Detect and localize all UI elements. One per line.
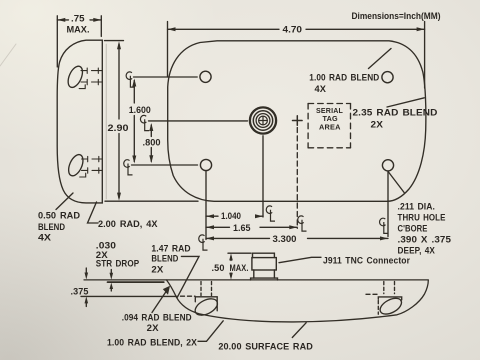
side view top hole section marks [79, 68, 102, 89]
profile mounting plane line [84, 279, 428, 281]
.50 MAX arrows [230, 257, 232, 277]
2.90 dimension line [118, 44, 120, 198]
dimension .75 MAX line + arrows [57, 19, 101, 21]
svg-text:3.300: 3.300 [273, 234, 297, 245]
datum cross mark [293, 116, 303, 126]
svg-text:Dimensions=Inch(MM): Dimensions=Inch(MM) [352, 11, 441, 21]
svg-text:2.35 RAD BLEND: 2.35 RAD BLEND [353, 108, 438, 118]
left counterbore bracket [195, 297, 217, 311]
leader .211 thru hole [389, 172, 405, 193]
svg-text:.390 X .375: .390 X .375 [398, 235, 452, 245]
leader J911 TNC connector [279, 257, 321, 262]
svg-text:.211 DIA.: .211 DIA. [398, 201, 436, 211]
svg-text:C'BORE: C'BORE [398, 223, 428, 233]
centerline symbol at 1.65 [298, 216, 307, 231]
right hidden hole ellipse [378, 295, 404, 317]
1.600 dimension line [133, 81, 135, 162]
svg-text:MAX.: MAX. [67, 25, 90, 36]
TNC connector cap [253, 253, 275, 257]
left hidden hole ellipse [193, 295, 221, 318]
side view bottom hole (angled ellipse) [66, 152, 86, 178]
svg-text:1.65: 1.65 [233, 223, 251, 234]
svg-text:.50: .50 [212, 263, 225, 273]
paper crease (faint photo artifact) [0, 44, 16, 66]
TNC connector flange [251, 278, 278, 280]
right counterbore hidden left edge [377, 301, 379, 315]
.50 MAX extension line [228, 252, 251, 254]
svg-text:BLEND: BLEND [151, 254, 178, 264]
4.70 extension lines [168, 22, 425, 89]
counterbore depth reference line left [81, 295, 178, 297]
svg-text:2X: 2X [151, 265, 163, 275]
plan view mounting hole bottom-right [382, 160, 393, 171]
svg-text:1.47 RAD: 1.47 RAD [151, 244, 191, 254]
.800 dimension line [150, 125, 152, 161]
svg-text:1.00 RAD BLEND: 1.00 RAD BLEND [309, 73, 379, 83]
svg-text:0.50 RAD: 0.50 RAD [38, 211, 80, 222]
svg-text:4X: 4X [315, 84, 327, 94]
centerline symbol row2 [140, 115, 149, 130]
svg-text:1.600: 1.600 [129, 105, 151, 116]
1.040 dimension line [206, 215, 263, 217]
svg-text:.375: .375 [71, 287, 89, 297]
leader 1.47 rad blend [177, 256, 199, 297]
svg-text:.094 RAD BLEND: .094 RAD BLEND [122, 313, 192, 323]
centerline symbol at 1.040 [266, 206, 275, 221]
svg-text:2.00 RAD, 4X: 2.00 RAD, 4X [98, 219, 158, 230]
left hidden hole dashed lines [201, 282, 212, 296]
svg-text:4X: 4X [38, 233, 52, 244]
.030 / .375 arrows left [85, 268, 87, 307]
leader 0.50 rad blend [56, 193, 73, 210]
svg-text:2.90: 2.90 [108, 123, 129, 134]
connector boss concentric circles [250, 107, 276, 133]
leader .094 rad blend [152, 289, 168, 312]
leader 2.00 rad 4x [88, 202, 99, 223]
centerline symbol row3 [124, 160, 133, 175]
side view bottom hole section marks [80, 156, 103, 177]
svg-text:STR DROP: STR DROP [96, 259, 139, 269]
4.70 dimension line [168, 28, 425, 30]
svg-text:2X: 2X [147, 323, 159, 333]
svg-text:2X: 2X [371, 120, 384, 130]
plan view outline [168, 41, 426, 202]
extension from connector center [262, 136, 264, 217]
leader 2.35 rad blend [387, 98, 424, 107]
leader 20.00 surface rad [292, 323, 306, 338]
svg-text:THRU HOLE: THRU HOLE [398, 212, 446, 222]
extension from bottom-right hole [387, 172, 389, 237]
profile body outline [167, 280, 429, 322]
serial tag area dashed box [308, 103, 350, 105]
centerline row1 [134, 76, 198, 78]
right counterbore depth dashed line [366, 293, 378, 295]
connector center cross [259, 117, 267, 125]
svg-text:1.00 RAD BLEND, 2X: 1.00 RAD BLEND, 2X [107, 338, 197, 348]
centerline symbol at 3.300 right [380, 218, 389, 233]
svg-text:J911 TNC Connector: J911 TNC Connector [323, 256, 410, 266]
centerline row3 [132, 164, 198, 166]
svg-text:BLEND: BLEND [38, 222, 65, 233]
svg-text:.75: .75 [71, 14, 85, 25]
side view top hole (angled ellipse) [65, 64, 85, 90]
leader 1.00 rad blend [369, 49, 392, 69]
3.300 dimension line [206, 237, 388, 239]
svg-text:DEEP, 4X: DEEP, 4X [398, 246, 436, 256]
ghost line (photo double edge) [105, 44, 107, 199]
leader 1.00 rad blend 2x [198, 321, 223, 342]
svg-text:.800: .800 [143, 138, 161, 149]
svg-text:1.040: 1.040 [221, 211, 241, 222]
dimension .75 MAX extension lines [57, 16, 101, 67]
plan view mounting hole top-left [200, 71, 211, 82]
profile .030 dropped edge line [108, 281, 164, 283]
left counterbore depth dashed line [181, 295, 196, 297]
extension from bottom-left hole [205, 171, 207, 240]
TNC connector neck [254, 270, 275, 278]
centerline row2 (connector) [149, 120, 248, 122]
side view outline [57, 40, 102, 203]
2.90 extension lines [105, 41, 199, 202]
1.65 dimension line [206, 226, 297, 228]
svg-text:AREA: AREA [319, 123, 341, 132]
svg-text:4.70: 4.70 [283, 25, 303, 36]
svg-text:20.00 SURFACE RAD: 20.00 SURFACE RAD [218, 342, 313, 352]
TNC connector body [252, 258, 276, 270]
plan view mounting hole top-right [382, 72, 393, 83]
svg-text:.030: .030 [96, 241, 116, 251]
centerline symbol bottom-left [199, 235, 208, 250]
centerline symbol row1 [126, 72, 135, 87]
right hidden hole dashed lines [384, 282, 395, 294]
dashed extension from datum cross [296, 128, 298, 229]
svg-text:MAX.: MAX. [230, 263, 249, 273]
right counterbore bracket [378, 297, 401, 300]
plan view mounting hole bottom-left [200, 159, 211, 170]
